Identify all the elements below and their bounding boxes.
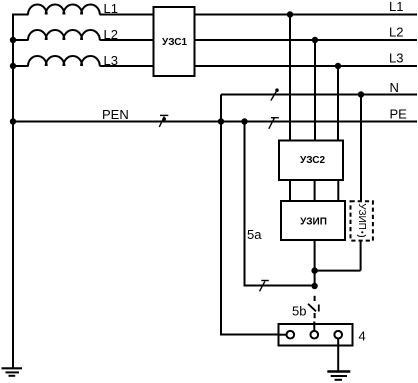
svg-text:УЗИП: УЗИП xyxy=(356,203,367,230)
svg-text:L3: L3 xyxy=(389,51,403,66)
svg-text:L3: L3 xyxy=(104,53,118,68)
svg-text:4: 4 xyxy=(359,329,366,344)
svg-text:L2: L2 xyxy=(104,27,118,42)
svg-text:5b: 5b xyxy=(292,304,306,319)
svg-text:5a: 5a xyxy=(247,227,262,242)
svg-text:L2: L2 xyxy=(389,25,403,40)
svg-text:УЗИП: УЗИП xyxy=(300,216,327,227)
svg-text:УЗС2: УЗС2 xyxy=(300,155,325,166)
svg-text:PE: PE xyxy=(390,107,408,122)
svg-text:L1: L1 xyxy=(389,0,403,14)
svg-text:УЗС1: УЗС1 xyxy=(162,37,187,48)
svg-text:L1: L1 xyxy=(104,1,118,16)
svg-text:N: N xyxy=(390,80,399,95)
svg-text:PEN: PEN xyxy=(102,107,129,122)
